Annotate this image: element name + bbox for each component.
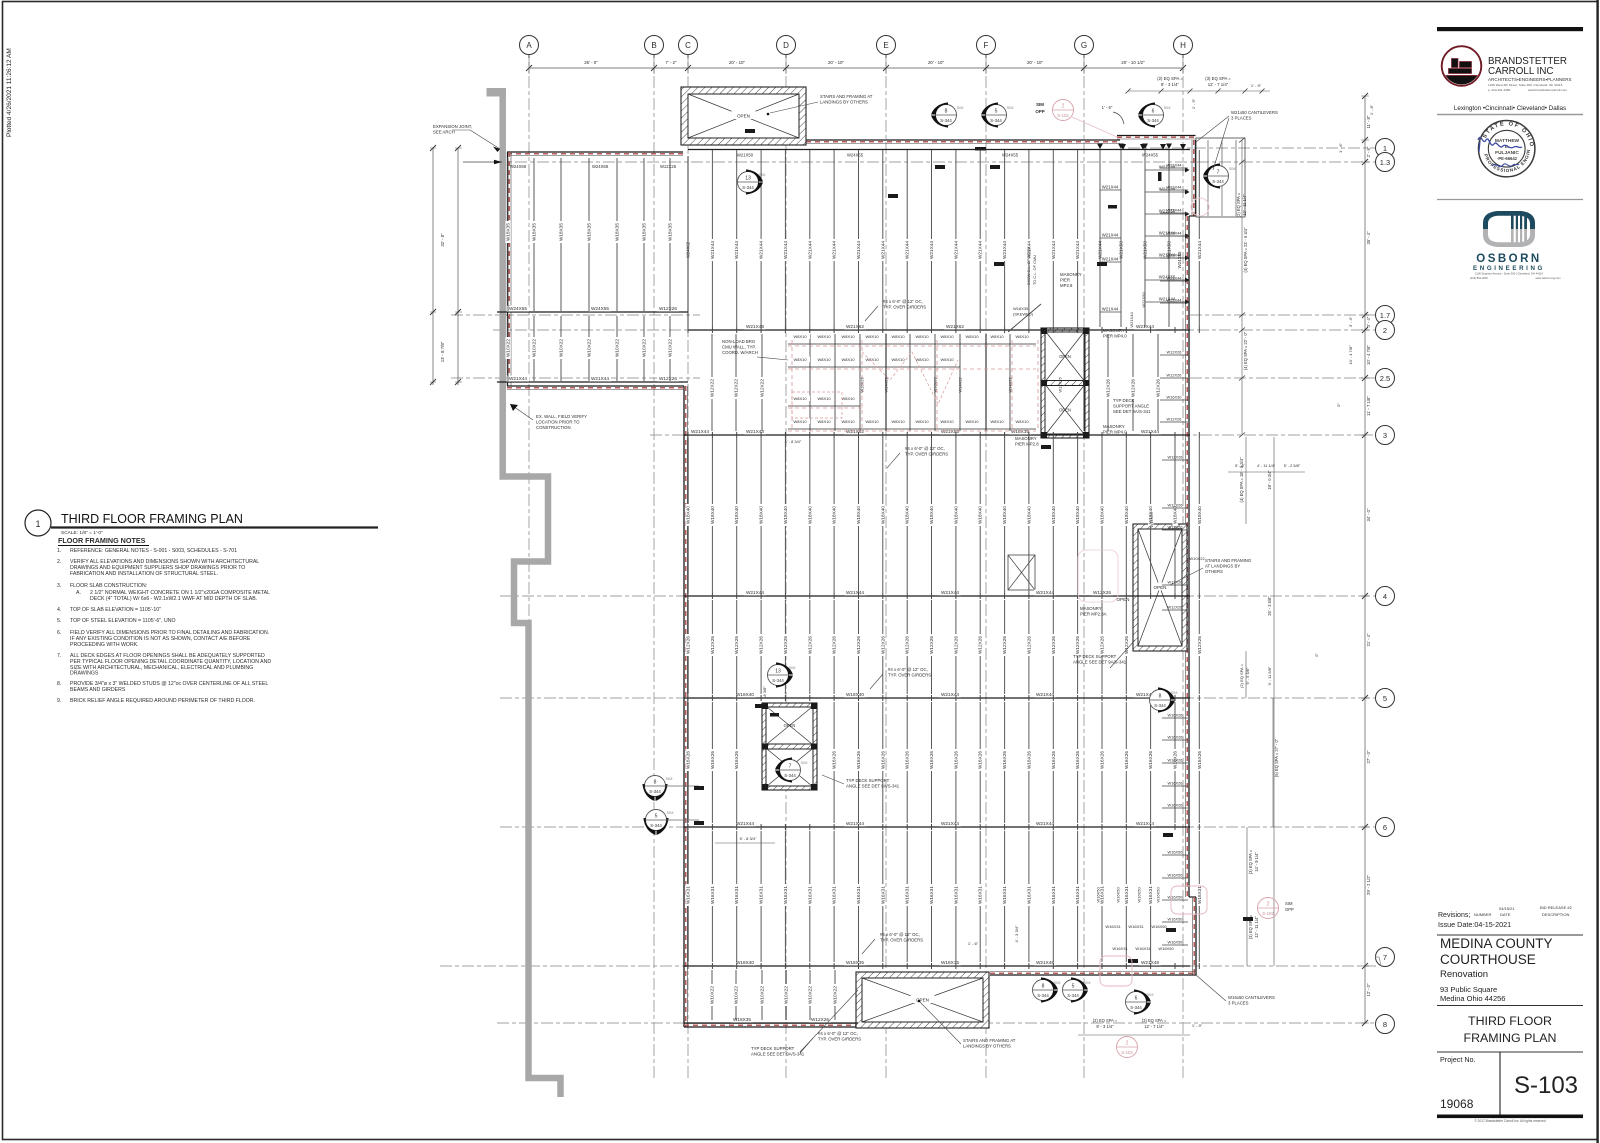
svg-text:© 2017 Brandstetter Carroll In: © 2017 Brandstetter Carroll Inc. All rig… — [1474, 1119, 1545, 1123]
svg-text:W16X31: W16X31 — [1051, 886, 1056, 904]
svg-text:W18X40: W18X40 — [1051, 506, 1056, 524]
svg-text:W16X26: W16X26 — [1168, 758, 1183, 763]
svg-text:W8X10: W8X10 — [793, 357, 807, 362]
svg-text:BRICK RELIEF ANGLE REQUIRED AR: BRICK RELIEF ANGLE REQUIRED AROUND PERIM… — [70, 698, 255, 704]
svg-text:3: 3 — [1383, 431, 1387, 440]
svg-text:12' - 11 1/4": 12' - 11 1/4" — [1242, 194, 1247, 216]
svg-text:W10X22: W10X22 — [506, 339, 511, 357]
svg-text:0": 0" — [1314, 653, 1319, 657]
svg-text:W16X26: W16X26 — [1124, 751, 1129, 769]
svg-text:W10X22: W10X22 — [710, 986, 715, 1004]
svg-text:(2) EQ SPA =: (2) EQ SPA = — [1239, 663, 1244, 687]
svg-text:1' - 9": 1' - 9" — [1251, 83, 1262, 88]
svg-text:NUMBER: NUMBER — [1474, 912, 1491, 917]
svg-text:W12X26: W12X26 — [929, 636, 934, 654]
svg-text:W18X35: W18X35 — [846, 960, 864, 965]
svg-text:W12X26: W12X26 — [1167, 350, 1182, 355]
svg-text:W8X10: W8X10 — [915, 334, 929, 339]
svg-text:W16X26: W16X26 — [686, 751, 691, 769]
svg-text:SUPPORT ANGLE: SUPPORT ANGLE — [1113, 404, 1149, 409]
svg-text:W12X26: W12X26 — [1106, 379, 1111, 397]
svg-text:W21X44: W21X44 — [832, 241, 837, 259]
svg-text:S-102: S-102 — [1262, 911, 1274, 916]
svg-text:W8X10: W8X10 — [817, 419, 831, 424]
svg-text:S-344: S-344 — [1147, 118, 1159, 123]
svg-text:W12X26: W12X26 — [660, 164, 677, 169]
svg-text:W10X22: W10X22 — [615, 339, 620, 357]
svg-text:EX. WALL, FIELD VERIFY: EX. WALL, FIELD VERIFY — [536, 414, 587, 419]
svg-text:COORD. W/ARCH: COORD. W/ARCH — [722, 350, 758, 355]
svg-text:W18X40: W18X40 — [832, 506, 837, 524]
svg-text:W21X48: W21X48 — [1036, 960, 1054, 965]
svg-text:8: 8 — [654, 780, 657, 786]
svg-text:13: 13 — [775, 669, 781, 675]
svg-text:4.: 4. — [57, 607, 61, 613]
svg-text:W21X44: W21X44 — [710, 241, 715, 259]
svg-text:ENGINEERING: ENGINEERING — [1473, 265, 1545, 272]
svg-text:DECK (4" TOTAL) W/ 6x6 - W2.1x: DECK (4" TOTAL) W/ 6x6 - W2.1xW2.1 WWF A… — [90, 596, 257, 602]
svg-text:W24X55: W24X55 — [847, 153, 864, 158]
svg-text:W18X35: W18X35 — [941, 960, 959, 965]
svg-text:W18X40: W18X40 — [978, 506, 983, 524]
svg-text:E: E — [883, 41, 888, 50]
svg-text:12' - 7 1/4": 12' - 7 1/4" — [1144, 1024, 1164, 1029]
svg-text:W16X26: W16X26 — [734, 751, 739, 769]
svg-text:SIM: SIM — [789, 666, 796, 670]
svg-text:27' - 0": 27' - 0" — [1366, 750, 1371, 764]
svg-text:MASONRY: MASONRY — [1060, 272, 1082, 277]
svg-text:W21X44: W21X44 — [591, 376, 609, 381]
svg-text:14' - 9 1/4": 14' - 9 1/4" — [1254, 852, 1259, 872]
svg-text:W8X10: W8X10 — [793, 396, 807, 401]
svg-text:CMU WALL, TYP.: CMU WALL, TYP. — [722, 345, 756, 350]
svg-text:MASONRY: MASONRY — [1080, 606, 1102, 611]
svg-text:TO C.L. OF CMU: TO C.L. OF CMU — [1032, 255, 1037, 285]
svg-text:W21X50: W21X50 — [1141, 292, 1146, 308]
svg-text:W8X10: W8X10 — [891, 419, 905, 424]
svg-text:MP2.8: MP2.8 — [1060, 283, 1073, 288]
svg-text:W21X50: W21X50 — [1143, 241, 1148, 259]
svg-text:W21X44: W21X44 — [691, 429, 709, 434]
svg-text:35' - 4": 35' - 4" — [1366, 231, 1371, 245]
svg-text:W21X44: W21X44 — [1102, 185, 1119, 190]
svg-text:W21X44: W21X44 — [1167, 276, 1183, 281]
svg-text:5: 5 — [1072, 984, 1075, 990]
svg-text:TYP DECK SUPPORT: TYP DECK SUPPORT — [751, 1046, 795, 1051]
svg-text:PIER MP2.8: PIER MP2.8 — [1015, 442, 1039, 447]
svg-text:W10X22: W10X22 — [559, 339, 564, 357]
svg-text:H: H — [1180, 41, 1186, 50]
svg-text:W8X10: W8X10 — [965, 334, 979, 339]
svg-text:(3) EQ SPA =: (3) EQ SPA = — [1142, 1018, 1167, 1023]
svg-text:W18X40: W18X40 — [1100, 506, 1105, 524]
svg-text:8: 8 — [945, 109, 948, 115]
svg-text:W8X10: W8X10 — [1015, 334, 1029, 339]
svg-text:8: 8 — [1042, 984, 1045, 990]
svg-text:W12X26: W12X26 — [1100, 636, 1105, 654]
svg-text:OPP: OPP — [1285, 907, 1294, 912]
svg-text:W16X50: W16X50 — [1168, 850, 1184, 855]
svg-text:W16X31: W16X31 — [1112, 946, 1128, 951]
svg-text:W12X26: W12X26 — [1002, 636, 1007, 654]
svg-text:PIER MP2.8A: PIER MP2.8A — [1080, 612, 1107, 617]
svg-text:ANGLE SEE DET 9A/S-341: ANGLE SEE DET 9A/S-341 — [846, 784, 900, 789]
svg-text:W16X31: W16X31 — [1026, 886, 1031, 904]
svg-text:S-344: S-344 — [1130, 1005, 1142, 1010]
svg-text:S-344: S-344 — [990, 118, 1002, 123]
svg-text:W12X26: W12X26 — [1167, 373, 1182, 378]
svg-text:A.: A. — [76, 590, 81, 596]
svg-text:W18X40: W18X40 — [736, 960, 754, 965]
svg-text:W18X40: W18X40 — [1124, 506, 1129, 524]
svg-text:26' - 3 5/8": 26' - 3 5/8" — [1267, 596, 1272, 616]
svg-text:W16X26: W16X26 — [1051, 751, 1056, 769]
svg-text:W12X26: W12X26 — [1131, 379, 1136, 397]
svg-text:W16X26: W16X26 — [880, 751, 885, 769]
svg-text:W18X40: W18X40 — [734, 506, 739, 524]
svg-text:SIM: SIM — [759, 173, 766, 177]
svg-text:TYP. OVER GIRDERS: TYP. OVER GIRDERS — [880, 938, 923, 943]
svg-text:1' - 9": 1' - 9" — [1192, 1023, 1203, 1028]
svg-text:W18X40: W18X40 — [1075, 506, 1080, 524]
svg-text:W21X44: W21X44 — [1075, 241, 1080, 259]
svg-text:W21X44: W21X44 — [978, 241, 983, 259]
svg-text:W16X26: W16X26 — [832, 751, 837, 769]
svg-text:29' - 2 1/2": 29' - 2 1/2" — [1366, 875, 1371, 895]
svg-text:Lexington •Cincinnati• Clevela: Lexington •Cincinnati• Cleveland• Dallas — [1454, 105, 1566, 112]
svg-text:8' - 3 1/4": 8' - 3 1/4" — [1096, 1024, 1114, 1029]
svg-text:W21X44: W21X44 — [941, 590, 959, 595]
svg-text:11' - 8": 11' - 8" — [1366, 115, 1371, 128]
svg-text:SIM: SIM — [1171, 691, 1178, 695]
svg-text:(2) EQ SPA =: (2) EQ SPA = — [1157, 76, 1183, 81]
svg-text:W21X44: W21X44 — [1167, 253, 1183, 258]
svg-text:1.: 1. — [57, 548, 61, 554]
svg-text:1' - 6": 1' - 6" — [1338, 142, 1343, 153]
svg-text:OPP: OPP — [1035, 109, 1044, 114]
svg-text:W12X26: W12X26 — [1051, 636, 1056, 654]
svg-text:SIM: SIM — [801, 761, 808, 765]
svg-text:13' - 8 7/8": 13' - 8 7/8" — [440, 341, 445, 362]
svg-text:W10X22: W10X22 — [587, 339, 592, 357]
svg-text:W21X44: W21X44 — [856, 241, 861, 259]
svg-text:MASONRY: MASONRY — [1103, 328, 1125, 333]
svg-text:W16X31: W16X31 — [1124, 886, 1129, 904]
svg-text:-PE-66642: -PE-66642 — [1497, 156, 1518, 161]
svg-text:W16X31: W16X31 — [905, 886, 910, 904]
svg-text:SIM: SIM — [1036, 102, 1044, 107]
svg-text:19' - 0 3/4": 19' - 0 3/4" — [1267, 470, 1272, 490]
svg-text:11' - 7 1/8": 11' - 7 1/8" — [1366, 396, 1371, 416]
svg-text:12' - 0": 12' - 0" — [1366, 983, 1371, 997]
svg-text:Plotted 4/26/2021 11:26:12 AM: Plotted 4/26/2021 11:26:12 AM — [6, 48, 13, 137]
svg-text:W16X31: W16X31 — [783, 886, 788, 904]
svg-text:5: 5 — [1383, 694, 1387, 703]
svg-text:W16X26: W16X26 — [953, 751, 958, 769]
svg-text:W21X44: W21X44 — [846, 821, 864, 826]
svg-text:W12X26: W12X26 — [759, 636, 764, 654]
svg-text:S-344: S-344 — [940, 118, 952, 123]
svg-text:1' - 6": 1' - 6" — [1102, 105, 1113, 110]
svg-text:W18X35: W18X35 — [1013, 306, 1029, 311]
svg-text:10' - 4 7/8": 10' - 4 7/8" — [1348, 345, 1353, 365]
svg-text:W18X40: W18X40 — [807, 506, 812, 524]
svg-text:W21X44: W21X44 — [1102, 233, 1119, 238]
svg-text:W21X62: W21X62 — [946, 324, 964, 329]
svg-text:S-344: S-344 — [1037, 993, 1049, 998]
svg-text:1: 1 — [35, 519, 40, 529]
svg-text:W16X26: W16X26 — [1075, 751, 1080, 769]
svg-text:W18X35: W18X35 — [615, 223, 620, 241]
svg-text:7' - 2": 7' - 2" — [665, 60, 677, 65]
svg-text:(216) 861-2020: (216) 861-2020 — [1470, 276, 1488, 280]
svg-text:#4 x 6'-0" @ 12" OC,: #4 x 6'-0" @ 12" OC, — [880, 932, 920, 937]
svg-text:STAIRS AND FRAMING AT: STAIRS AND FRAMING AT — [963, 1038, 1016, 1043]
svg-text:S-102: S-102 — [1057, 113, 1069, 118]
svg-text:4' - 3 3/4": 4' - 3 3/4" — [1014, 925, 1019, 942]
svg-text:SIM: SIM — [1054, 981, 1061, 985]
svg-text:W16X26: W16X26 — [1168, 713, 1183, 718]
svg-text:W21X44: W21X44 — [953, 241, 958, 259]
svg-text:W24X62: W24X62 — [686, 241, 691, 258]
svg-text:8' - 3 1/4": 8' - 3 1/4" — [1161, 82, 1180, 87]
svg-text:W16X26: W16X26 — [1168, 781, 1183, 786]
svg-text:W21X44: W21X44 — [905, 241, 910, 259]
svg-text:7: 7 — [789, 764, 792, 770]
svg-text:W18X35: W18X35 — [1011, 429, 1029, 434]
svg-text:Renovation: Renovation — [1440, 969, 1488, 980]
svg-text:W12X26: W12X26 — [807, 636, 812, 654]
svg-text:W18X40: W18X40 — [783, 506, 788, 524]
svg-text:W18X40: W18X40 — [1026, 506, 1031, 524]
svg-text:#4 x 6'-0" @ 12" OC,: #4 x 6'-0" @ 12" OC, — [883, 299, 923, 304]
svg-text:TYP DECK SUPPORT: TYP DECK SUPPORT — [1073, 654, 1117, 659]
svg-text:C: C — [685, 41, 691, 50]
svg-text:W16X31: W16X31 — [1148, 886, 1153, 904]
svg-text:W21x50 CANTILEVERS: W21x50 CANTILEVERS — [1231, 110, 1278, 115]
svg-text:SIM: SIM — [1285, 901, 1293, 906]
svg-text:W21X44: W21X44 — [1167, 163, 1183, 168]
svg-text:W16X26: W16X26 — [1148, 751, 1153, 769]
svg-text:W8X10: W8X10 — [817, 357, 831, 362]
svg-text:W21X44: W21X44 — [1051, 241, 1056, 259]
svg-text:W12X26: W12X26 — [811, 1017, 829, 1022]
svg-text:7: 7 — [1383, 953, 1387, 962]
svg-text:(3) EQ SPA =: (3) EQ SPA = — [1205, 76, 1231, 81]
svg-text:5' - 6": 5' - 6" — [1235, 463, 1246, 468]
svg-text:1' - 8": 1' - 8" — [1369, 104, 1374, 115]
svg-text:SIM: SIM — [1164, 106, 1171, 110]
svg-text:9' - 11 5/8": 9' - 11 5/8" — [1267, 666, 1272, 685]
svg-text:FLOOR FRAMING NOTES: FLOOR FRAMING NOTES — [58, 536, 146, 545]
svg-text:W16X31: W16X31 — [1075, 886, 1080, 904]
svg-text:(2) EQ SPA =: (2) EQ SPA = — [1093, 1018, 1118, 1023]
svg-text:W16X31: W16X31 — [953, 886, 958, 904]
svg-text:W21X44: W21X44 — [846, 590, 864, 595]
svg-text:W21X44: W21X44 — [783, 241, 788, 259]
svg-text:W21X62: W21X62 — [846, 429, 864, 434]
svg-text:W16X26: W16X26 — [1197, 751, 1202, 769]
svg-text:W18X40: W18X40 — [736, 692, 754, 697]
svg-text:W16X26: W16X26 — [978, 751, 983, 769]
svg-text:W18X40: W18X40 — [856, 506, 861, 524]
svg-text:W14X22: W14X22 — [1008, 377, 1013, 393]
svg-text:W16X26: W16X26 — [1100, 751, 1105, 769]
svg-text:W16X31: W16X31 — [856, 886, 861, 904]
svg-text:6: 6 — [1383, 823, 1387, 832]
svg-text:W21X44: W21X44 — [759, 241, 764, 259]
svg-text:2.: 2. — [57, 559, 61, 565]
svg-text:1.3: 1.3 — [1380, 158, 1390, 167]
svg-text:STAIRS AND FRAMING AT: STAIRS AND FRAMING AT — [820, 94, 873, 99]
svg-text:REFERENCE: GENERAL NOTES - S-0: REFERENCE: GENERAL NOTES - S-001 - S003,… — [70, 548, 237, 554]
svg-text:20' - 10 1/2": 20' - 10 1/2" — [1121, 60, 1145, 65]
svg-text:26' - 0": 26' - 0" — [584, 60, 598, 65]
svg-text:W8X10: W8X10 — [940, 419, 954, 424]
svg-text:W16X26: W16X26 — [1168, 735, 1183, 740]
svg-text:W8X10: W8X10 — [940, 357, 954, 362]
svg-text:W8X10: W8X10 — [990, 334, 1004, 339]
svg-text:W21X44: W21X44 — [880, 241, 885, 259]
svg-text:W24X68: W24X68 — [592, 164, 609, 169]
svg-text:F: F — [984, 41, 989, 50]
svg-text:OPEN: OPEN — [784, 723, 796, 728]
svg-text:FRAMING PLAN: FRAMING PLAN — [1464, 1031, 1557, 1045]
svg-text:Project No.: Project No. — [1440, 1055, 1476, 1064]
svg-text:1: 1 — [1383, 144, 1387, 153]
svg-text:8: 8 — [1159, 694, 1162, 700]
svg-text:W12X26: W12X26 — [1124, 636, 1129, 654]
svg-text:TYP DECK SUPPORT: TYP DECK SUPPORT — [846, 778, 890, 783]
svg-text:32' - 0": 32' - 0" — [440, 233, 445, 247]
svg-text:OPEN: OPEN — [737, 114, 750, 119]
svg-text:OPEN: OPEN — [1116, 597, 1129, 602]
svg-text:W12X26: W12X26 — [978, 636, 983, 654]
svg-text:W21X44: W21X44 — [1102, 257, 1119, 262]
svg-text:19068: 19068 — [1440, 1097, 1474, 1111]
svg-text:W12X22: W12X22 — [710, 379, 715, 397]
svg-text:(SKEWED): (SKEWED) — [1013, 312, 1034, 317]
svg-text:W16X31: W16X31 — [1002, 886, 1007, 904]
svg-text:W18X40: W18X40 — [929, 506, 934, 524]
svg-text:W12X26: W12X26 — [659, 376, 677, 381]
svg-text:ARCHITECTS▪ENGINEERS▪PLANNERS: ARCHITECTS▪ENGINEERS▪PLANNERS — [1488, 77, 1572, 82]
svg-text:(4) EQ SPA = 23' - 6 3/4": (4) EQ SPA = 23' - 6 3/4" — [1243, 227, 1248, 273]
svg-text:(4) EQ SPA = 22' - 0": (4) EQ SPA = 22' - 0" — [1243, 331, 1248, 370]
svg-text:PIER MP4.0: PIER MP4.0 — [1103, 334, 1127, 339]
svg-text:S-102: S-102 — [1121, 1050, 1133, 1055]
svg-text:5' - 8 3/4": 5' - 8 3/4" — [785, 439, 802, 444]
svg-text:W18X40: W18X40 — [686, 506, 691, 524]
svg-text:W16X31: W16X31 — [880, 886, 885, 904]
svg-text:W12X26: W12X26 — [1197, 636, 1202, 654]
svg-text:W8X10: W8X10 — [891, 334, 905, 339]
svg-text:5.: 5. — [57, 618, 61, 624]
svg-text:W16X26: W16X26 — [933, 377, 938, 393]
svg-text:AT LANDINGS BY: AT LANDINGS BY — [1205, 564, 1240, 569]
svg-text:BID RELEASE #2: BID RELEASE #2 — [1540, 905, 1573, 910]
svg-text:W12X26: W12X26 — [1168, 525, 1183, 530]
svg-text:W12X26: W12X26 — [783, 636, 788, 654]
svg-text:W16X31: W16X31 — [978, 886, 983, 904]
svg-text:#4 x 6'-0" @ 12" OC,: #4 x 6'-0" @ 12" OC, — [818, 1031, 858, 1036]
svg-text:LANDINGS BY OTHERS: LANDINGS BY OTHERS — [963, 1044, 1011, 1049]
svg-text:3' - 4": 3' - 4" — [1366, 316, 1371, 327]
svg-text:9.: 9. — [57, 698, 61, 704]
svg-text:LOCATION PRIOR TO: LOCATION PRIOR TO — [536, 420, 580, 425]
svg-text:S-344: S-344 — [650, 823, 662, 828]
svg-text:W10X22: W10X22 — [668, 339, 673, 357]
svg-text:NON-LOAD BRG: NON-LOAD BRG — [722, 339, 756, 344]
svg-text:W24X55: W24X55 — [591, 306, 609, 311]
svg-text:W18X35: W18X35 — [642, 223, 647, 241]
svg-text:CONSTRUCTION: CONSTRUCTION — [536, 425, 571, 430]
svg-text:W8X10: W8X10 — [915, 419, 929, 424]
svg-text:W10X22: W10X22 — [1189, 556, 1205, 561]
svg-text:W21X44: W21X44 — [941, 692, 959, 697]
svg-text:COURTHOUSE: COURTHOUSE — [1440, 952, 1536, 967]
svg-text:W16X30: W16X30 — [1167, 395, 1183, 400]
svg-text:W8X10: W8X10 — [841, 419, 855, 424]
svg-text:W10X22: W10X22 — [734, 986, 739, 1004]
svg-text:S-103: S-103 — [1514, 1072, 1578, 1099]
svg-text:W21X44: W21X44 — [1002, 241, 1007, 259]
svg-text:TYP. OVER GIRDERS: TYP. OVER GIRDERS — [905, 452, 948, 457]
svg-text:W21X44: W21X44 — [1167, 185, 1183, 190]
svg-text:W18X40: W18X40 — [905, 506, 910, 524]
svg-text:S-344: S-344 — [1154, 703, 1166, 708]
svg-text:(2) EQ SPA =: (2) EQ SPA = — [1236, 192, 1241, 217]
svg-text:W14X22: W14X22 — [958, 377, 963, 393]
svg-text:3 PLACES: 3 PLACES — [1231, 116, 1252, 121]
svg-text:W21X44: W21X44 — [1036, 692, 1054, 697]
svg-text:LANDINGS BY OTHERS: LANDINGS BY OTHERS — [820, 100, 868, 105]
svg-text:20' - 10": 20' - 10" — [828, 60, 845, 65]
svg-text:W21X44: W21X44 — [1167, 208, 1183, 213]
svg-text:W16X26: W16X26 — [860, 377, 865, 393]
svg-text:SEE DET 9A/S-341: SEE DET 9A/S-341 — [1113, 409, 1151, 414]
svg-text:W10X22: W10X22 — [833, 986, 838, 1004]
svg-text:4: 4 — [1383, 592, 1387, 601]
svg-text:12' - 7 1/4": 12' - 7 1/4" — [1208, 82, 1229, 87]
svg-text:1100 Superior Avenue - Suite 3: 1100 Superior Avenue - Suite 300 | Cleve… — [1475, 272, 1543, 276]
svg-text:W10X22: W10X22 — [760, 986, 765, 1004]
svg-text:W16X50: W16X50 — [1168, 917, 1184, 922]
svg-text:DESCRIPTION: DESCRIPTION — [1542, 912, 1569, 917]
svg-text:FLOOR SLAB CONSTRUCTION:: FLOOR SLAB CONSTRUCTION: — [70, 583, 147, 589]
svg-text:W21X44: W21X44 — [1102, 307, 1119, 312]
svg-text:W21X44: W21X44 — [1167, 231, 1183, 236]
svg-text:W21X44: W21X44 — [509, 376, 527, 381]
svg-text:W21X44: W21X44 — [1129, 312, 1134, 328]
svg-text:W8X10: W8X10 — [915, 357, 929, 362]
svg-text:W12X26: W12X26 — [953, 636, 958, 654]
svg-text:W12X26: W12X26 — [1167, 417, 1182, 422]
svg-text:W21X44: W21X44 — [1197, 241, 1202, 259]
svg-text:W16X50: W16X50 — [1151, 924, 1167, 929]
svg-text:Revisions;: Revisions; — [1438, 912, 1470, 919]
svg-text:Issue Date:04-15-2021: Issue Date:04-15-2021 — [1438, 920, 1511, 929]
svg-text:W12X26: W12X26 — [710, 636, 715, 654]
svg-text:SIM: SIM — [1229, 167, 1236, 171]
svg-text:W12X26: W12X26 — [734, 636, 739, 654]
svg-text:SIM: SIM — [667, 811, 674, 815]
svg-text:W21X44: W21X44 — [1136, 821, 1154, 826]
svg-text:W18X35: W18X35 — [532, 223, 537, 241]
svg-text:W10X22: W10X22 — [532, 339, 537, 357]
svg-text:TOP OF SLAB ELEVATION = 1105: TOP OF SLAB ELEVATION = 1105'-10" — [70, 607, 161, 613]
svg-text:EXPANSION JOINT,: EXPANSION JOINT, — [433, 124, 472, 129]
